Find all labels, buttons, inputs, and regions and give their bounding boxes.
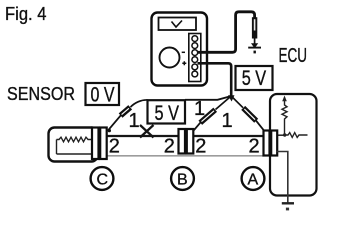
- ground symbol: [282, 202, 294, 204]
- svg-text:2: 2: [249, 135, 260, 157]
- multimeter display: [159, 18, 197, 31]
- svg-text:Fig. 4: Fig. 4: [5, 4, 47, 24]
- wire harness top line (signal wire 1): [107, 135, 264, 137]
- probe touching point 1 at connector C: [121, 107, 131, 115]
- leader from left 5V box to probe at C: [131, 100, 148, 107]
- probe touching point 1 at connector B: [216, 96, 232, 110]
- sensor internal resistor: [57, 140, 93, 155]
- minus mark: [182, 51, 185, 53]
- svg-text:C: C: [97, 172, 109, 189]
- svg-text:A: A: [248, 172, 259, 189]
- meter lead (negative) to hanging probe: [198, 12, 255, 53]
- svg-text:2: 2: [195, 135, 206, 157]
- connector circle A: [242, 167, 265, 190]
- connector circle C: [91, 167, 114, 190]
- svg-text:5 V: 5 V: [242, 67, 267, 90]
- svg-text:B: B: [177, 172, 188, 189]
- wire segment into ECU to node: [276, 134, 285, 136]
- leader from 5V box to apex: [185, 96, 231, 100]
- svg-text:2: 2: [109, 135, 120, 157]
- svg-text:SENSOR: SENSOR: [7, 83, 75, 104]
- meter lead (positive) down to probes: [198, 63, 232, 96]
- svg-text:1: 1: [222, 110, 233, 132]
- break mark X on wire 1: [140, 125, 154, 138]
- value box 5 V (left, at B): [148, 100, 186, 123]
- value box 0 V: [86, 83, 120, 105]
- ECU pull-up resistor (vertical) with arrow to 5V: [282, 101, 287, 135]
- wire harness bottom line (wire 2): [107, 155, 264, 157]
- hanging probe barrel: [252, 17, 257, 38]
- connector A: [264, 131, 270, 156]
- hanging probe needle: [254, 39, 256, 46]
- ECU input resistor (horizontal): [285, 133, 308, 138]
- ECU ground wire: [277, 152, 288, 204]
- terminal strip: [189, 34, 201, 82]
- svg-text:ECU: ECU: [279, 44, 308, 67]
- V check mark in display: [172, 21, 183, 28]
- terminal sockets: [192, 36, 198, 77]
- svg-text:1: 1: [194, 98, 205, 120]
- connector circle B: [171, 167, 194, 190]
- node junction: [283, 133, 286, 136]
- multimeter dial: [160, 48, 180, 68]
- connector C: [92, 128, 99, 160]
- svg-text:1: 1: [129, 110, 140, 132]
- svg-text:2: 2: [164, 135, 175, 157]
- value box 5 V (right, at A): [236, 66, 273, 90]
- probe tip arrowhead and bar: [251, 43, 258, 48]
- apex junction blob: [228, 95, 235, 101]
- ECU box: [270, 94, 317, 196]
- probe touching point 1 at connector A: [231, 96, 243, 108]
- svg-text:0 V: 0 V: [91, 84, 115, 107]
- sensor body: [49, 128, 98, 162]
- svg-text:5 V: 5 V: [155, 102, 180, 125]
- multimeter body: [152, 13, 208, 86]
- connector B: [179, 129, 186, 154]
- plus mark: [182, 61, 186, 65]
